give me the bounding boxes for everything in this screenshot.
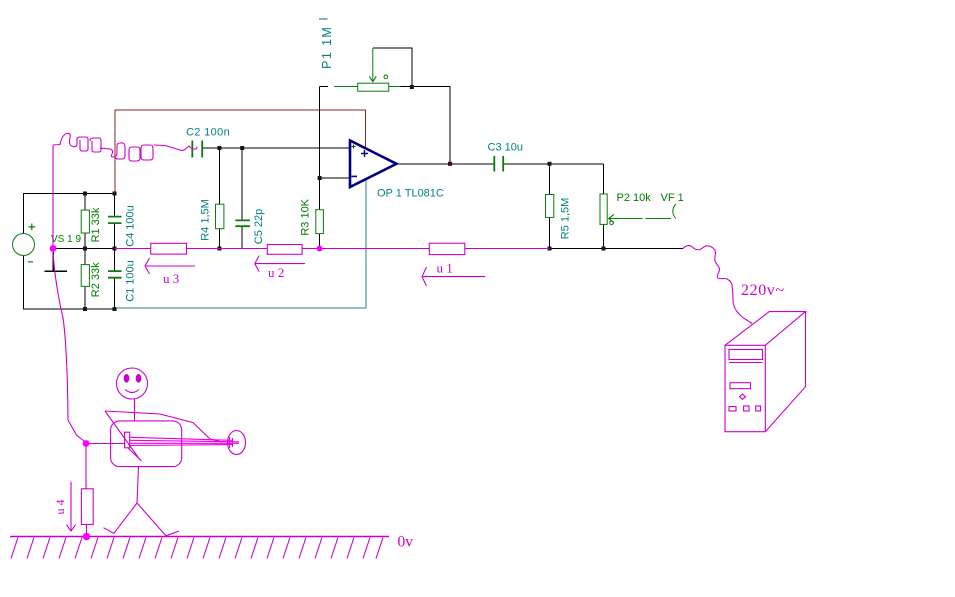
svg-text:OP 1 TL081C: OP 1 TL081C [377,188,444,200]
svg-text:220v~: 220v~ [741,282,785,299]
svg-text:u 2: u 2 [268,265,284,280]
svg-text:R2 33k: R2 33k [90,262,102,297]
svg-text:P1 1M: P1 1M [320,26,334,69]
svg-text:VS 1 9: VS 1 9 [51,234,81,245]
svg-text:C2 100n: C2 100n [186,127,230,139]
svg-text:C4 100u: C4 100u [124,205,136,247]
svg-text:u 1: u 1 [437,261,453,276]
svg-text:R3 10K: R3 10K [300,198,312,235]
svg-text:R1 33k: R1 33k [90,207,102,242]
svg-text:0v: 0v [398,534,414,551]
svg-text:u 3: u 3 [163,271,179,286]
svg-text:R4 1,5M: R4 1,5M [200,199,212,241]
svg-text:C1 100u: C1 100u [124,260,136,302]
svg-text:P2 10k: P2 10k [617,192,652,204]
svg-text:VF 1: VF 1 [661,192,684,204]
svg-text:C3 10u: C3 10u [488,142,523,154]
svg-text:C5 22p: C5 22p [253,209,265,244]
svg-text:R5 1,5M: R5 1,5M [560,198,572,240]
svg-text:u 4: u 4 [53,500,67,515]
